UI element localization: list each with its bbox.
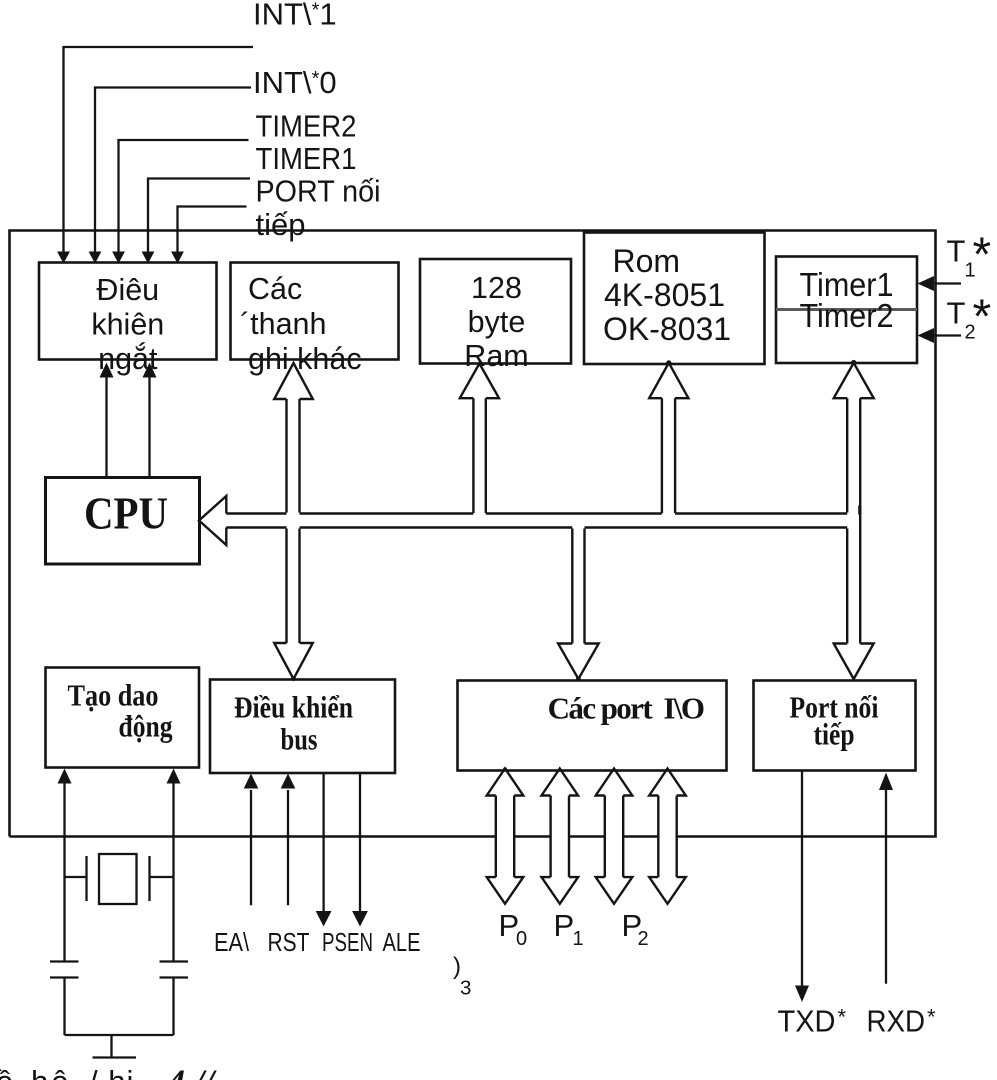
port P2 double arrow: [596, 769, 633, 904]
svg-text:RXD: RXD: [867, 1004, 926, 1039]
svg-text:INT\*1: INT\*1: [253, 0, 337, 32]
arrowhead CPU link right: [143, 363, 157, 378]
svg-text:động: động: [119, 709, 173, 744]
svg-text:TIMER1: TIMER1: [256, 141, 357, 176]
wire ground rail: [65, 1034, 174, 1036]
svg-text:tiếp: tiếp: [814, 717, 855, 752]
arrowhead RST: [281, 774, 296, 789]
svg-text:ghi khác: ghi khác: [248, 342, 362, 376]
wire TIMER1 to interrupt box: [148, 179, 250, 253]
svg-text:*: *: [838, 1005, 847, 1030]
arrowhead CPU link left: [100, 363, 114, 378]
svg-text:P: P: [554, 908, 575, 943]
bus arrow ROM head: [649, 363, 688, 398]
svg-text:PORT nối: PORT nối: [256, 174, 381, 209]
wire interrupt box to CPU (left): [105, 377, 107, 478]
svg-text:Các port I\O: Các port I\O: [548, 691, 704, 726]
arrowhead ALE: [352, 911, 368, 927]
svg-text:TIMER2: TIMER2: [256, 109, 357, 144]
svg-text:0: 0: [516, 928, 527, 950]
svg-text:hê: hê: [31, 1064, 71, 1080]
bus arrow timer (down head): [834, 644, 874, 680]
svg-text:Điều khiển: Điều khiển: [234, 690, 353, 725]
wire PORT noi tiep to interrupt box: [178, 207, 247, 253]
wire C2 to ground rail: [172, 978, 174, 1036]
svg-text:TXD: TXD: [778, 1004, 836, 1039]
svg-text:tiếp: tiếp: [256, 207, 306, 242]
bus arrow registers shaft: [287, 399, 300, 643]
svg-text:INT\*0: INT\*0: [253, 65, 337, 100]
svg-text:Các: Các: [248, 272, 302, 306]
crystal left electrode plate: [85, 856, 87, 901]
bus arrow ROM shaft: [662, 398, 675, 513]
bus arrow RAM shaft: [473, 398, 485, 513]
bus arrow registers (down head): [274, 643, 313, 679]
arrowhead oscillator left: [58, 769, 72, 784]
svg-text:3: 3: [460, 977, 471, 1000]
arrowhead PSEN: [316, 911, 332, 927]
svg-text:Ram: Ram: [464, 339, 528, 373]
wire RXD into serial port: [885, 789, 887, 984]
box "Dieu khien bus" (bus control): [210, 680, 395, 774]
arrowhead T1 into timer box: [918, 276, 935, 291]
box "128 byte Ram": [420, 259, 571, 364]
port P1 double arrow: [542, 769, 579, 904]
bus arrow I/O ports (down head): [558, 644, 599, 680]
svg-text:*: *: [927, 1005, 936, 1030]
wire ALE out of bus control: [359, 773, 361, 912]
arrowhead INT\*0: [89, 252, 102, 264]
divider line between Timer1 and Timer2: [776, 308, 917, 311]
arrowhead RXD: [879, 773, 893, 791]
svg-text:2: 2: [638, 928, 649, 950]
arrowhead TIMER2: [112, 252, 125, 264]
junction dot timer arrow tip: [851, 360, 856, 365]
bus arrow timer shaft: [847, 398, 860, 643]
bus arrow timer (up head): [834, 363, 874, 398]
wire TIMER2 to interrupt box: [119, 140, 249, 252]
box "Dieu khien ngat" (interrupt control): [39, 263, 217, 360]
wire INT\*0 to interrupt box: [95, 88, 251, 253]
svg-text:RST: RST: [268, 927, 310, 957]
svg-text:T: T: [947, 296, 966, 331]
wire interrupt box to CPU (right): [148, 377, 150, 478]
svg-text:Rom: Rom: [613, 243, 681, 279]
capacitor C1 plates: [50, 962, 79, 978]
svg-text:/ hi: / hi: [89, 1064, 134, 1080]
junction tick timer shaft at bus: [858, 506, 861, 515]
svg-text:OK-8031: OK-8031: [603, 311, 731, 347]
svg-text:ề: ề: [0, 1064, 13, 1080]
crystal right electrode plate: [148, 856, 150, 901]
wire stub crystal plate to right lead: [150, 876, 174, 878]
svg-text:khiên: khiên: [91, 308, 164, 342]
junction dot ports down tip: [576, 677, 581, 682]
wire ground stub: [110, 1035, 112, 1058]
junction dot ROM arrow tip: [666, 360, 671, 365]
arrowhead TXD: [795, 986, 809, 1003]
junction dot registers down tip: [291, 676, 296, 681]
outer block boundary of 8051 chip: [10, 231, 936, 837]
svg-text:Điêu: Điêu: [96, 273, 159, 307]
svg-text:*: *: [973, 291, 992, 344]
port P3 double arrow: [649, 769, 686, 904]
bus channel top line: [226, 512, 847, 514]
svg-text:CPU: CPU: [84, 488, 168, 539]
svg-text:byte: byte: [468, 305, 526, 339]
box "Rom 4K-8051 OK-8031": [584, 233, 765, 365]
svg-text:ALE: ALE: [383, 927, 421, 957]
wire C1 to ground rail: [63, 978, 65, 1036]
wire T1 input: [933, 282, 961, 284]
bus arrow registers (double, up head): [274, 363, 313, 399]
wire T2 input: [933, 334, 961, 336]
box Timer1/Timer2: [776, 257, 917, 364]
capacitor C2 plates: [160, 962, 189, 978]
svg-text:´thanh: ´thanh: [240, 307, 326, 341]
svg-text:4K-8051: 4K-8051: [604, 277, 725, 313]
box "Cac thanh ghi khac" (other registers): [231, 263, 399, 360]
wire TXD out of serial port: [801, 771, 803, 987]
arrowhead TIMER1: [142, 252, 155, 264]
svg-text:*: *: [973, 229, 992, 282]
svg-text:1: 1: [573, 928, 584, 950]
svg-text:ngắt: ngắt: [98, 341, 158, 376]
arrowhead EA\: [244, 774, 259, 789]
arrowhead oscillator right: [167, 769, 181, 784]
arrowhead PORT noi tiep: [171, 252, 184, 264]
svg-text:bus: bus: [281, 722, 318, 757]
wire INT\*1 to interrupt box: [64, 47, 254, 252]
box "Tao dao dong" (oscillator): [46, 668, 200, 768]
box "Cac port I\O" (I/O ports): [458, 681, 727, 771]
bus arrow RAM head: [460, 364, 499, 399]
ground symbol bar: [93, 1056, 137, 1058]
junction dot P0 tip: [503, 767, 507, 771]
wire PSEN out of bus control: [322, 773, 324, 912]
bus arrowhead into CPU: [199, 496, 226, 545]
port P0 double arrow: [487, 769, 524, 904]
bus channel bottom line: [226, 526, 847, 528]
svg-text:Tạo dao: Tạo dao: [68, 678, 159, 713]
wire EA\ into bus control: [250, 790, 252, 905]
wire oscillator left lead to crystal: [63, 783, 65, 962]
svg-text:T: T: [947, 234, 966, 269]
bus arrow I/O ports shaft: [572, 529, 584, 644]
wire stub left lead to crystal plate: [65, 876, 87, 878]
arrowhead T2 into timer box: [918, 328, 935, 343]
svg-text:128: 128: [471, 271, 522, 305]
arrowhead INT\*1: [57, 252, 70, 264]
wire oscillator right lead to crystal: [172, 783, 174, 962]
crystal XTAL body: [99, 854, 137, 904]
svg-text:EA\: EA\: [214, 927, 250, 957]
box "Port noi tiep" (serial port): [754, 681, 916, 771]
box CPU: [46, 478, 200, 565]
svg-text:4 //: 4 //: [166, 1062, 217, 1080]
wire RST into bus control: [287, 790, 289, 905]
svg-text:Timer2: Timer2: [800, 297, 894, 334]
svg-text:PSEN: PSEN: [322, 927, 373, 957]
